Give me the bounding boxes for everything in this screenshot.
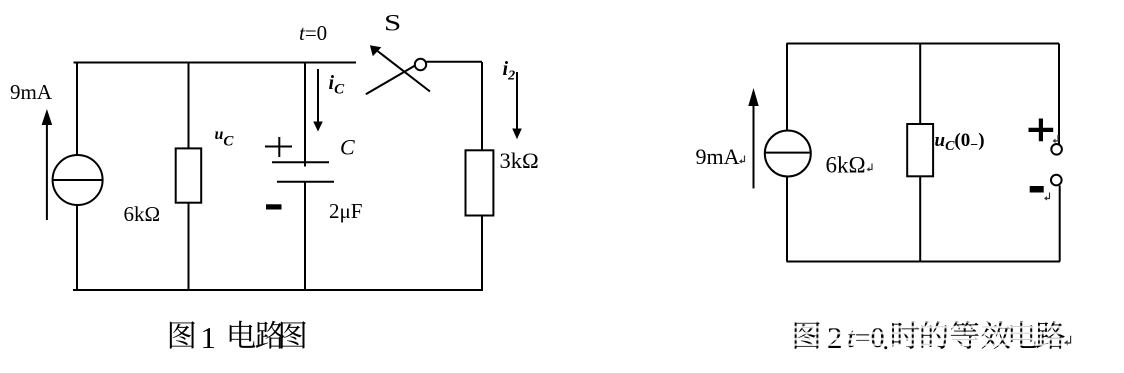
svg-text:2μF: 2μF [329,199,362,223]
svg-text:2: 2 [827,320,843,355]
svg-text:9mA: 9mA [10,80,53,104]
svg-text:S: S [384,10,401,35]
svg-text:6kΩ: 6kΩ [826,153,866,178]
svg-text:9mA: 9mA [696,144,740,169]
svg-text:i2: i2 [503,58,516,84]
svg-text:.: . [883,326,890,355]
svg-text:3kΩ: 3kΩ [500,148,539,173]
svg-text:6kΩ: 6kΩ [124,202,161,226]
svg-text:uC: uC [215,126,235,150]
svg-text:iC: iC [329,72,346,98]
svg-text:1: 1 [201,320,217,355]
svg-text:uC(0−): uC(0−) [935,130,985,154]
svg-text:t=0: t=0 [299,21,327,45]
svg-text:C: C [340,135,355,160]
